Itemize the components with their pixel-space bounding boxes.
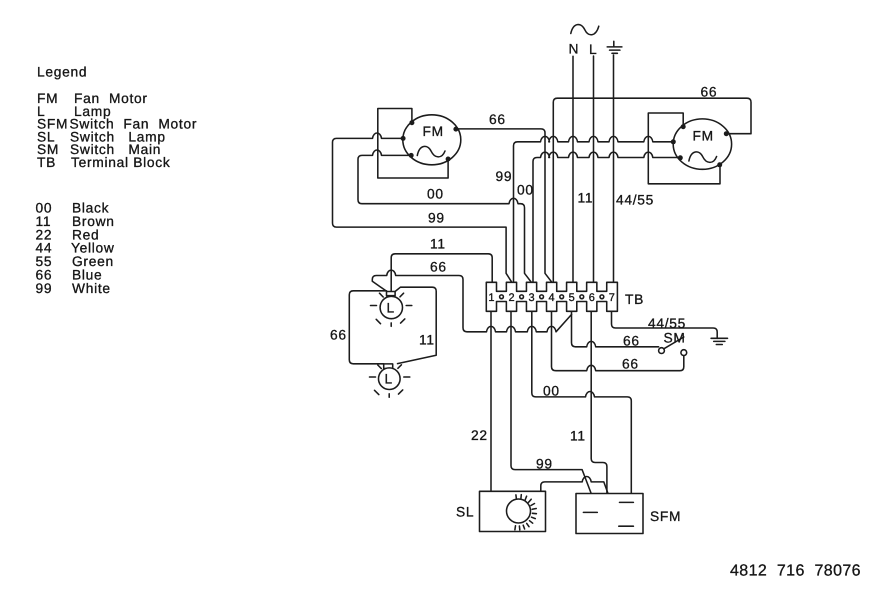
svg-text:SL: SL [456, 505, 474, 520]
wire 66 (SM to TB4) [552, 311, 684, 370]
wire N vertical to TB5 [572, 56, 574, 282]
TB terminal numbers [488, 292, 615, 304]
svg-text:1: 1 [488, 292, 494, 304]
switch SFM box [576, 494, 643, 534]
wire 99 left (left FM mid pin to TB2, diagonal end) [333, 133, 512, 282]
wire 22 (TB1 to SL) [490, 311, 492, 491]
chassis ground symbol [711, 338, 727, 344]
svg-text:66: 66 [701, 85, 718, 100]
svg-text:7: 7 [609, 292, 615, 304]
svg-text:FM: FM [693, 129, 714, 144]
right fan motor FM circle [673, 119, 731, 169]
svg-text:Legend: Legend [37, 65, 87, 80]
svg-text:66: 66 [623, 334, 640, 349]
lamp box left side (66) [349, 291, 386, 364]
lamp L2 cap [384, 364, 393, 369]
svg-text:Terminal Block: Terminal Block [71, 155, 171, 170]
svg-text:TB: TB [625, 292, 644, 307]
left FM sine [417, 146, 445, 156]
legend title [37, 65, 87, 80]
svg-text:FM: FM [423, 124, 444, 139]
svg-text:5: 5 [569, 292, 575, 304]
svg-text:00: 00 [543, 384, 560, 399]
svg-text:L: L [387, 301, 395, 316]
wire 44/55 (TB7 to chassis earth) [612, 311, 718, 338]
wire earth vertical to TB7 (44/55) [613, 55, 615, 282]
legend abbreviations list [37, 91, 197, 170]
wire SL to SFM [541, 477, 608, 494]
svg-text:22: 22 [471, 428, 488, 443]
lamp L1 cap [387, 292, 396, 296]
lamp L1 circle [380, 296, 402, 318]
wire L vertical to TB6 [593, 56, 595, 282]
svg-text:N: N [569, 42, 580, 57]
svg-text:11: 11 [570, 429, 586, 444]
lamp L1 rays [371, 293, 412, 326]
TB screw circles [500, 295, 604, 299]
svg-text:TB: TB [37, 155, 56, 170]
svg-text:6: 6 [589, 292, 595, 304]
svg-text:SFM: SFM [650, 509, 681, 524]
svg-text:99: 99 [36, 281, 53, 296]
wire 00 left (left FM lower pin to TB3, diagonal end) [358, 150, 531, 282]
right FM terminal dots [671, 124, 729, 167]
lamp L2 circle [379, 368, 401, 390]
svg-text:44/55: 44/55 [648, 316, 686, 331]
svg-text:66: 66 [622, 357, 639, 372]
svg-text:99: 99 [496, 169, 513, 184]
wire 66 (lamp 1 to TB5 via lower run) [372, 270, 571, 332]
legend colour code list [36, 201, 115, 296]
svg-text:L: L [589, 42, 597, 57]
SL knob circle [507, 499, 531, 523]
svg-text:00: 00 [427, 187, 444, 202]
wire 99 (to right FM upper-left pin, down to TB2) [514, 136, 672, 282]
svg-text:4: 4 [549, 292, 555, 304]
switch SM [659, 337, 687, 356]
left fan motor FM circle [403, 115, 461, 165]
svg-text:SM: SM [664, 331, 686, 346]
svg-text:66: 66 [489, 112, 506, 127]
wire 00 (to right FM lower-left pin, down to TB3) [533, 152, 678, 282]
svg-text:99: 99 [428, 211, 445, 226]
AC source sine symbol [571, 25, 599, 35]
left FM terminal dots [401, 120, 459, 161]
wire 66 top (right FM to TB4) [553, 98, 751, 282]
wire 99 (TB2 to SFM) [511, 311, 591, 493]
svg-text:4812 716 78076: 4812 716 78076 [730, 563, 861, 580]
SL knob ticks [515, 495, 537, 530]
wire 11 (TB6 to SFM) [591, 311, 607, 493]
wire 11 (lamp 1 to TB1) [391, 254, 492, 291]
svg-text:L: L [385, 372, 393, 387]
wire 00 (TB3 to SFM) [532, 311, 632, 493]
svg-text:11: 11 [430, 237, 446, 252]
earth symbol (supply) [607, 41, 622, 53]
svg-text:White: White [72, 281, 111, 296]
svg-text:66: 66 [330, 328, 347, 343]
right FM auxiliary loop wire [648, 113, 720, 184]
svg-text:2: 2 [508, 292, 514, 304]
svg-text:00: 00 [517, 183, 534, 198]
left FM auxiliary loop wire [378, 109, 448, 179]
right FM sine [689, 152, 717, 162]
lamp L2 rays [370, 365, 410, 397]
SFM contact dashes [583, 502, 633, 526]
svg-text:44/55: 44/55 [616, 193, 654, 208]
terminal block TB outline [486, 282, 617, 311]
svg-text:3: 3 [528, 292, 534, 304]
svg-text:11: 11 [578, 191, 594, 206]
svg-text:99: 99 [536, 457, 553, 472]
lamp box right side (11) [395, 287, 436, 363]
svg-text:66: 66 [430, 260, 447, 275]
svg-text:11: 11 [419, 333, 435, 348]
switch SL box [480, 491, 546, 531]
wire 66 (TB5 to SM) [572, 311, 659, 347]
wire 66 (left FM to TB4, with end diagonal) [458, 129, 551, 282]
